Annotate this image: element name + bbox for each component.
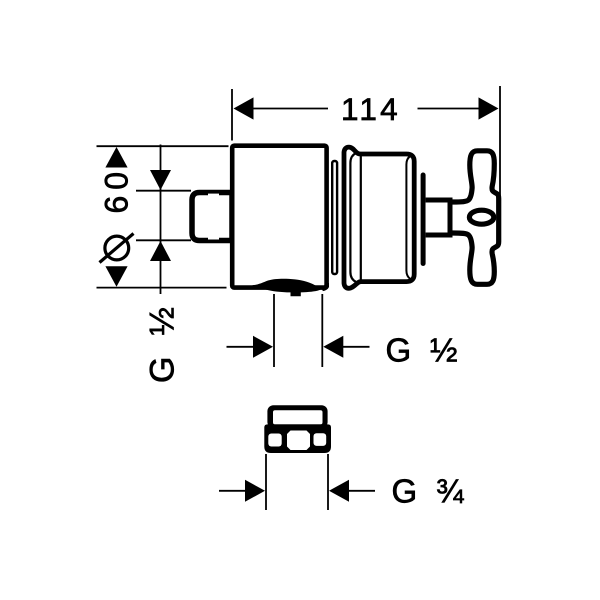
extension line top of Ø60 dimension	[97, 145, 229, 147]
arrowhead right of 114 dimension	[479, 97, 499, 119]
stem hub top edge	[453, 200, 469, 205]
extension line bottom of inlet connector	[136, 239, 191, 241]
sleeve flange inner contour	[350, 153, 356, 282]
arrowhead down of Ø60 dimension	[105, 266, 127, 287]
stem collar ring right of sleeve	[421, 175, 426, 264]
arrowhead pointing right at outlet G1/2	[253, 336, 273, 358]
dimension tail line right of G3/4	[348, 490, 375, 492]
sleeve flange step line	[360, 154, 362, 281]
dimension line of inlet G1/2 (vertical)	[160, 145, 162, 295]
diameter symbol Ø	[100, 234, 134, 263]
svg-text:¾: ¾	[436, 473, 464, 510]
stem hub bottom edge	[453, 231, 469, 236]
hose fitting upper part	[267, 405, 327, 428]
extension line bottom of Ø60 dimension	[97, 287, 227, 289]
cross handle (side view)	[453, 151, 499, 284]
svg-text:G: G	[392, 473, 418, 510]
hex nut right facet	[314, 433, 327, 446]
handle hub spoke end (ellipse)	[469, 210, 493, 224]
arrowhead left of 114 dimension	[234, 97, 254, 119]
arrowhead down to inlet top	[150, 170, 171, 190]
arrowhead pointing left at G3/4	[329, 480, 349, 502]
extension line left of G3/4 dimension	[265, 454, 267, 510]
arrowhead pointing left at outlet G1/2	[323, 336, 343, 358]
extension line left of outlet G1/2 dimension	[273, 294, 275, 367]
sleeve right inner contour	[406, 156, 410, 279]
extension line top of inlet connector	[136, 190, 191, 192]
extension line right of 114 dimension (handle face)	[499, 86, 501, 196]
bottom outlet spout (black silhouette)	[253, 279, 321, 296]
arrowhead up to inlet bottom	[150, 241, 171, 261]
body lower-right edge curl	[322, 283, 329, 291]
dimension tail line right of outlet G1/2	[343, 346, 370, 348]
dimension tail line left of outlet G1/2	[227, 346, 255, 348]
extension line right of G3/4 dimension	[327, 454, 329, 510]
valve body (main cylinder)	[232, 146, 326, 288]
G1/2 inlet connector (square flange on left of body)	[192, 193, 232, 241]
hose fitting upper part interior	[273, 410, 323, 424]
svg-text:60: 60	[99, 166, 135, 214]
hex nut center facet	[287, 431, 310, 451]
arrowhead pointing right at G3/4	[245, 480, 265, 502]
gap ring between body and sleeve	[332, 161, 337, 274]
escutcheon sleeve (bell shaped)	[344, 147, 414, 288]
valve stem (rectangular shaft)	[426, 200, 450, 235]
dimension line 114, left segment	[252, 108, 328, 110]
svg-text:G: G	[144, 357, 182, 383]
dimension line 114, right segment	[418, 108, 480, 110]
arrowhead up of Ø60 dimension	[105, 147, 127, 168]
hex nut left facet	[268, 434, 281, 447]
extension line right of outlet G1/2 dimension	[321, 294, 323, 367]
hose fitting hex nut	[264, 424, 331, 453]
svg-text:114: 114	[341, 91, 401, 127]
svg-text:G: G	[386, 332, 412, 369]
svg-text:½: ½	[430, 332, 458, 369]
extension line left of 114 dimension (body front face)	[231, 89, 233, 141]
dimension tail line left of G3/4	[219, 490, 247, 492]
svg-text:½: ½	[144, 307, 182, 335]
